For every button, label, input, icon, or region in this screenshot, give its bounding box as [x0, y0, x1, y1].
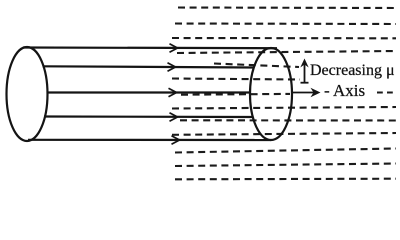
field line 1 (top)	[23, 46, 277, 49]
dashed field row 2	[175, 22, 396, 25]
dashed field row 1	[178, 6, 396, 9]
dashed field row 5 (hugging line 2, through right ellipse)	[214, 64, 299, 68]
axis arrow	[292, 92, 315, 94]
left ellipse (cylinder left face)	[7, 47, 48, 141]
dashed field row 9 (under line 4)	[180, 119, 396, 121]
field line 4	[44, 115, 253, 118]
dashed field row 7b (axis level far right)	[377, 91, 394, 93]
dashed field row 3	[172, 37, 396, 39]
arrowhead line 4	[170, 113, 178, 121]
dashed field row 4	[177, 51, 396, 53]
svg-text:Decreasing μ: Decreasing μ	[310, 62, 395, 79]
arrowhead line 2	[168, 63, 176, 71]
arrowhead line 1	[170, 44, 178, 52]
dashed field row 11	[175, 149, 396, 153]
dashed field row 8	[172, 107, 396, 109]
dashed field row 6	[172, 79, 300, 80]
field line 2	[43, 66, 254, 67]
arrowhead line 5	[172, 136, 180, 144]
field line 3 (axis)	[47, 91, 251, 93]
dashed field row 12	[175, 164, 396, 167]
up arrow (decreasing mu indicator)	[300, 59, 308, 83]
svg-text:- Axis: - Axis	[324, 81, 365, 100]
arrowhead line 3	[169, 88, 177, 96]
dashed field row 7a (axis level, under line 3 and through ellipse)	[181, 93, 290, 96]
dashed field row 13	[175, 178, 396, 181]
field line 5 (bottom)	[28, 139, 271, 141]
dashed field row 10	[172, 133, 396, 135]
right ellipse (cylinder right face)	[250, 48, 292, 140]
